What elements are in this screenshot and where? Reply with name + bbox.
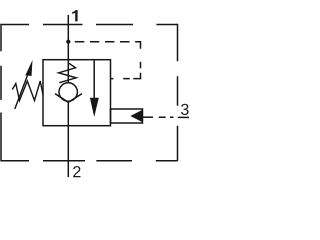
flow arrow head (down) [90,98,99,117]
drain line dashes [159,116,174,118]
pilot line corner bottom [133,73,140,79]
drain line solid stub [143,116,153,118]
drain chamber rectangle [111,109,143,123]
spring above check ball [59,63,77,82]
node: pilot junction dot [66,40,70,44]
enclosure dashed border left [0,24,2,162]
port 1 label [72,10,78,21]
port 1 line [67,15,69,83]
pilot line dashes back to valve body [111,78,130,80]
port 3 stub [178,116,189,118]
port 2 label [73,166,80,177]
drain arrow head (left) [130,110,142,123]
pilot line corner top-right [135,42,140,49]
flow arrow line in valve body [93,60,95,99]
port 3 label [181,104,189,115]
valve body box [43,60,111,126]
check valve seat [55,94,82,103]
port 2 line [67,102,69,177]
adjustment arrow head [25,60,32,76]
check ball circle [59,83,77,101]
pilot line vertical dash [140,62,142,69]
enclosure dashed border bottom [1,160,177,162]
enclosure dashed border right [177,24,179,161]
adjustable spring zigzag [12,81,43,101]
pilot line (dashed) horizontal from junction [75,41,130,43]
adjustment arrow shaft [15,72,29,109]
enclosure dashed border top [1,24,178,26]
